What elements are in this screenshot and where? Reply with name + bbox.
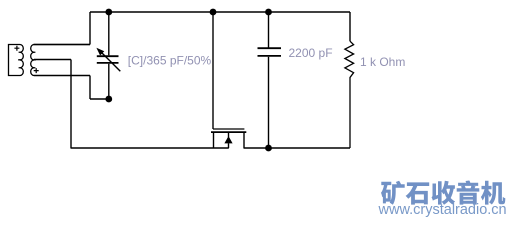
svg-text:2200 pF: 2200 pF bbox=[289, 46, 333, 60]
node B junction dot bbox=[210, 9, 217, 16]
node A junction dot bbox=[105, 9, 112, 16]
wire coil top to rail bbox=[34, 12, 91, 45]
transformer T1 bbox=[9, 45, 91, 76]
wire varcap top lead bbox=[108, 12, 110, 55]
svg-text:www.crystalradio.cn: www.crystalradio.cn bbox=[378, 202, 507, 218]
capacitor C2 2200pF bbox=[258, 48, 282, 148]
source leg bbox=[213, 132, 215, 148]
primary winding arcs bbox=[20, 45, 23, 76]
bulk stub bbox=[228, 132, 230, 148]
wire coil mid tap down bbox=[34, 60, 71, 149]
varcap arrow head bbox=[96, 48, 104, 56]
secondary top lead bbox=[34, 44, 90, 46]
node D junction dot varcap bottom bbox=[105, 96, 112, 103]
primary plus mark bbox=[14, 46, 19, 51]
wire gate branch bbox=[212, 12, 214, 129]
resistor R1 bbox=[345, 41, 354, 148]
primary winding left loop bbox=[9, 45, 21, 76]
transistor Q1 MOSFET bbox=[211, 129, 246, 148]
wire 2200pF top lead bbox=[268, 12, 270, 48]
node C junction dot bbox=[265, 9, 272, 16]
wire resistor top branch bbox=[349, 12, 351, 41]
secondary winding arcs bbox=[31, 45, 34, 76]
node E junction dot cap bottom bbox=[265, 145, 272, 152]
wire top rail bbox=[90, 11, 350, 13]
svg-text:[C]/365 pF/50%: [C]/365 pF/50% bbox=[128, 54, 212, 68]
bulk arrow bbox=[224, 136, 232, 143]
wire bottom rail left bbox=[71, 147, 229, 149]
drain leg bbox=[243, 132, 245, 148]
gate bar bbox=[213, 128, 244, 130]
wire bottom rail right bbox=[244, 147, 351, 149]
wire coil bottom to varcap bottom bbox=[34, 76, 109, 100]
channel bar bbox=[211, 131, 246, 133]
watermark chinese text 矿石收音机 bbox=[381, 181, 505, 205]
svg-text:1 k Ohm: 1 k Ohm bbox=[360, 55, 405, 69]
secondary plus mark bbox=[34, 68, 39, 73]
variable capacitor C1 365pF bbox=[97, 50, 121, 99]
